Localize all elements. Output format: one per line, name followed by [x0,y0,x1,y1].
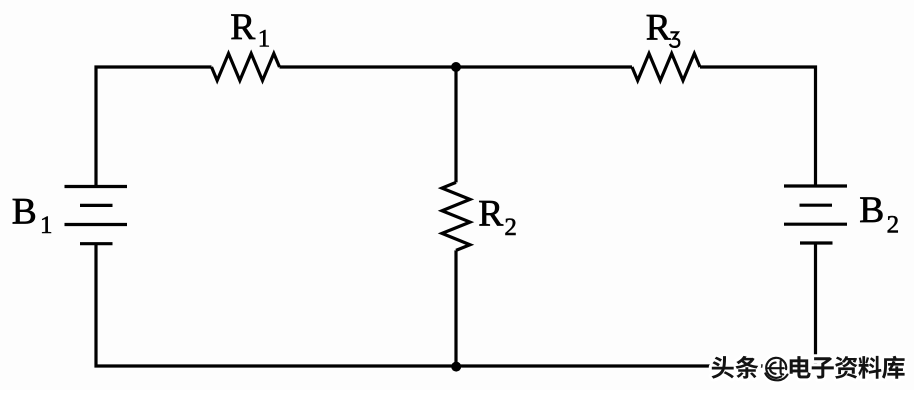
svg-text:B: B [859,190,884,231]
svg-text:1: 1 [258,26,271,53]
svg-text:R: R [478,194,503,235]
svg-text:2: 2 [504,214,517,241]
svg-text:B: B [12,192,37,233]
svg-text:2: 2 [887,212,900,239]
svg-text:R: R [646,7,671,48]
svg-text:1: 1 [40,212,53,239]
svg-text:R: R [230,7,255,48]
